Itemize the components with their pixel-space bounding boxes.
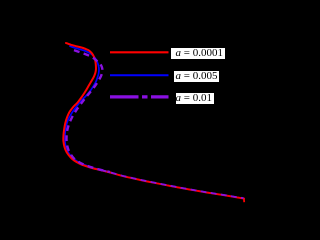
curve a=0.005 (blue trajectory, hook part) xyxy=(65,46,110,172)
curve a=0.01 (violet dashed trajectory, hook part) xyxy=(67,50,111,172)
legend label 3 xyxy=(176,93,214,104)
curve a=0.0001 (red trajectory, hook part) xyxy=(63,43,110,172)
curve a=0.0001 (red trajectory, tail part) xyxy=(101,170,244,198)
red trajectory end tick xyxy=(243,198,245,202)
legend label 2 xyxy=(174,71,219,82)
legend line a=0.005 xyxy=(110,74,169,76)
chart: three trajectories on black background with legend xyxy=(0,0,266,219)
curve a=0.01 (violet dashed trajectory, tail part) xyxy=(101,170,244,198)
curve a=0.005 (blue trajectory, tail part) xyxy=(101,170,244,198)
legend line a=0.01 xyxy=(110,95,169,98)
legend line a=0.0001 xyxy=(110,51,169,53)
legend label 1 xyxy=(171,48,225,59)
